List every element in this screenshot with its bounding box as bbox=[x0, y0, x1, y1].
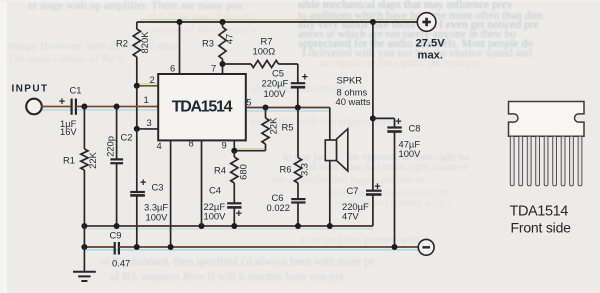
svg-text:3.3: 3.3 bbox=[298, 163, 309, 176]
junction dot C5-R6 node on output bbox=[295, 105, 301, 111]
junction dot pin6 on top rail bbox=[177, 19, 183, 25]
junction dot pin8 on upper rail bbox=[199, 223, 205, 229]
svg-text:C9: C9 bbox=[110, 230, 122, 241]
svg-text:3: 3 bbox=[147, 117, 152, 128]
svg-text:+: + bbox=[395, 116, 401, 128]
svg-text:6: 6 bbox=[170, 63, 175, 74]
svg-text:5: 5 bbox=[246, 97, 251, 108]
capacitor C1 1uF bbox=[70, 99, 72, 115]
resistor R7 100ohm bbox=[223, 63, 252, 65]
capacitor C7 220uF supply bbox=[366, 190, 382, 192]
junction dot R5 top bbox=[263, 105, 269, 111]
svg-text:INPUT: INPUT bbox=[12, 84, 49, 95]
svg-text:100V: 100V bbox=[399, 148, 422, 159]
svg-text:2: 2 bbox=[150, 74, 155, 85]
capacitor C4 22uF bbox=[227, 202, 241, 204]
svg-text:TDA1514: TDA1514 bbox=[510, 204, 569, 220]
svg-text:C1: C1 bbox=[70, 85, 82, 96]
junction dot pin7 node bbox=[220, 61, 226, 67]
svg-text:100V: 100V bbox=[264, 88, 287, 99]
junction dot C4 on upper rail bbox=[231, 223, 237, 229]
wire lower ground rail left of C9 bbox=[84, 246, 114, 248]
wire pin3 stub bbox=[137, 128, 158, 130]
svg-text:16V: 16V bbox=[60, 126, 77, 137]
wire C8 branch horizontal bbox=[373, 117, 395, 119]
svg-text:0.47: 0.47 bbox=[112, 258, 130, 269]
svg-text:820K: 820K bbox=[139, 31, 150, 54]
capacitor C2 220p bbox=[116, 107, 118, 160]
svg-text:680: 680 bbox=[237, 164, 248, 180]
junction dot C2 top node bbox=[114, 104, 120, 110]
resistor R4 680 bbox=[233, 151, 235, 157]
svg-text:7: 7 bbox=[211, 63, 216, 74]
svg-text:The usual culprits of the b: The usual culprits of the b bbox=[8, 53, 124, 65]
junction dot C2 on upper rail bbox=[114, 223, 120, 229]
junction dot C8 branch bbox=[370, 115, 376, 121]
junction dot V+ branch on top rail bbox=[370, 19, 376, 25]
svg-text:R2: R2 bbox=[116, 38, 128, 49]
svg-text:100V: 100V bbox=[146, 212, 169, 223]
resistor R3 47 bbox=[222, 22, 224, 27]
junction dot R3 top on top rail bbox=[220, 19, 226, 25]
package pins bbox=[510, 136, 582, 186]
svg-text:100V: 100V bbox=[204, 211, 227, 222]
op-amp IC U1 TDA1514 box bbox=[158, 74, 246, 140]
svg-text:220µF: 220µF bbox=[262, 78, 289, 89]
positive terminal 27.5V bbox=[417, 13, 436, 32]
svg-text:+: + bbox=[59, 96, 65, 108]
capacitor C5 220uF bootstrap bbox=[297, 64, 299, 83]
junction dot speaker on upper rail bbox=[327, 223, 333, 229]
capacitor C3 3.3uF bbox=[136, 129, 138, 192]
svg-text:version of RI together w: version of RI together w bbox=[150, 24, 258, 36]
junction dot pin9 node bbox=[231, 148, 237, 154]
wire pin9 to R5 bottom bbox=[234, 150, 265, 152]
svg-text:R3: R3 bbox=[202, 38, 214, 49]
wire pin6 vertical from top rail to IC bbox=[179, 22, 181, 74]
resistor R6 3.3 zobel bbox=[297, 108, 299, 158]
svg-text:R4: R4 bbox=[214, 165, 226, 176]
input terminal circle bbox=[26, 99, 42, 115]
junction dot C8 on lower rail bbox=[392, 244, 398, 250]
svg-text:R6: R6 bbox=[280, 164, 292, 175]
svg-text:C7: C7 bbox=[347, 185, 359, 196]
svg-text:22K: 22K bbox=[267, 117, 278, 134]
svg-text:100Ω: 100Ω bbox=[253, 46, 276, 57]
svg-text:40 watts: 40 watts bbox=[336, 96, 371, 107]
capacitor C9 0.47 bbox=[114, 242, 116, 255]
svg-text:47: 47 bbox=[223, 34, 234, 44]
speaker SPKR bbox=[329, 108, 331, 141]
negative terminal bbox=[418, 239, 434, 255]
wire C1 to pin1 bbox=[76, 106, 158, 108]
wire pin8 vertical bbox=[201, 140, 203, 226]
resistor R5 22K feedback bbox=[265, 108, 267, 119]
wire pin4 vertical bbox=[170, 140, 172, 247]
svg-text:C3: C3 bbox=[152, 182, 164, 193]
svg-text:+: + bbox=[140, 177, 146, 189]
svg-text:TDA1514: TDA1514 bbox=[172, 99, 233, 116]
svg-text:8: 8 bbox=[189, 138, 194, 149]
svg-text:that with boot and multi light: that with boot and multi light claims e bbox=[300, 161, 468, 173]
svg-text:of R1 standard, then specified: of R1 standard, then specified I'd alway… bbox=[100, 256, 374, 268]
svg-text:Front side: Front side bbox=[511, 220, 572, 236]
resistor R2 820K bbox=[136, 22, 138, 29]
svg-text:47V: 47V bbox=[342, 211, 359, 222]
svg-text:max.: max. bbox=[418, 50, 444, 62]
capacitor C6 0.022 bbox=[291, 198, 305, 200]
capacitor C8 47uF bbox=[394, 118, 396, 127]
wire pin2 stub bbox=[137, 85, 158, 87]
svg-text:220p: 220p bbox=[104, 136, 115, 157]
wire lower ground rail right of C9 bbox=[119, 246, 419, 248]
wire pin7 stub bbox=[222, 64, 224, 74]
wire V+ vertical branch bbox=[372, 22, 374, 191]
junction dot ground drop on lower rail bbox=[81, 244, 87, 250]
wire upper ground rail bbox=[84, 225, 373, 227]
junction dot C1-R1 node bbox=[81, 104, 87, 110]
svg-text:22K: 22K bbox=[87, 151, 98, 168]
junction dot pin2 node bbox=[134, 83, 140, 89]
junction dot C6 on upper rail bbox=[295, 223, 301, 229]
wire pin9 stub bbox=[233, 140, 235, 150]
svg-text:+: + bbox=[374, 181, 380, 193]
svg-text:9: 9 bbox=[222, 140, 227, 151]
svg-text:SPKR: SPKR bbox=[337, 75, 363, 86]
svg-text:es to tued that pointed with m: es to tued that pointed with m bbox=[300, 234, 431, 246]
svg-text:+: + bbox=[236, 208, 242, 220]
svg-text:+: + bbox=[302, 72, 308, 84]
junction dot pin3 node bbox=[134, 126, 140, 132]
svg-text:R1: R1 bbox=[63, 155, 75, 166]
IC package drawing TDA1514 front side bbox=[509, 102, 585, 137]
svg-text:R5: R5 bbox=[282, 122, 294, 133]
ground symbol bbox=[83, 226, 85, 272]
wire node2-to-node3 vertical bbox=[136, 86, 138, 129]
junction dot C3 on lower rail bbox=[134, 244, 140, 250]
wire input to C1 bbox=[41, 106, 71, 108]
wire top supply rail bbox=[137, 21, 417, 23]
svg-text:C8: C8 bbox=[409, 123, 421, 134]
svg-text:4: 4 bbox=[157, 140, 162, 151]
svg-text:C2: C2 bbox=[121, 132, 133, 143]
svg-text:C4: C4 bbox=[209, 185, 221, 196]
svg-text:of R3, amperes Row B will it r: of R3, amperes Row B will it reaches bor… bbox=[110, 271, 344, 283]
svg-text:0.022: 0.022 bbox=[267, 202, 290, 213]
svg-text:27.5V: 27.5V bbox=[416, 38, 446, 50]
junction dot pin4 on lower rail bbox=[168, 244, 174, 250]
junction dot R1 on upper rail bbox=[81, 223, 87, 229]
svg-text:1: 1 bbox=[144, 94, 149, 105]
svg-text:things. However, with all sort: things. However, with all sorts of discr bbox=[8, 40, 179, 52]
svg-text:as regards to the significant: as regards to the significant tests pre bbox=[320, 57, 480, 69]
resistor R1 22K bbox=[83, 107, 85, 150]
wire output pin5 to speaker bbox=[246, 107, 330, 109]
